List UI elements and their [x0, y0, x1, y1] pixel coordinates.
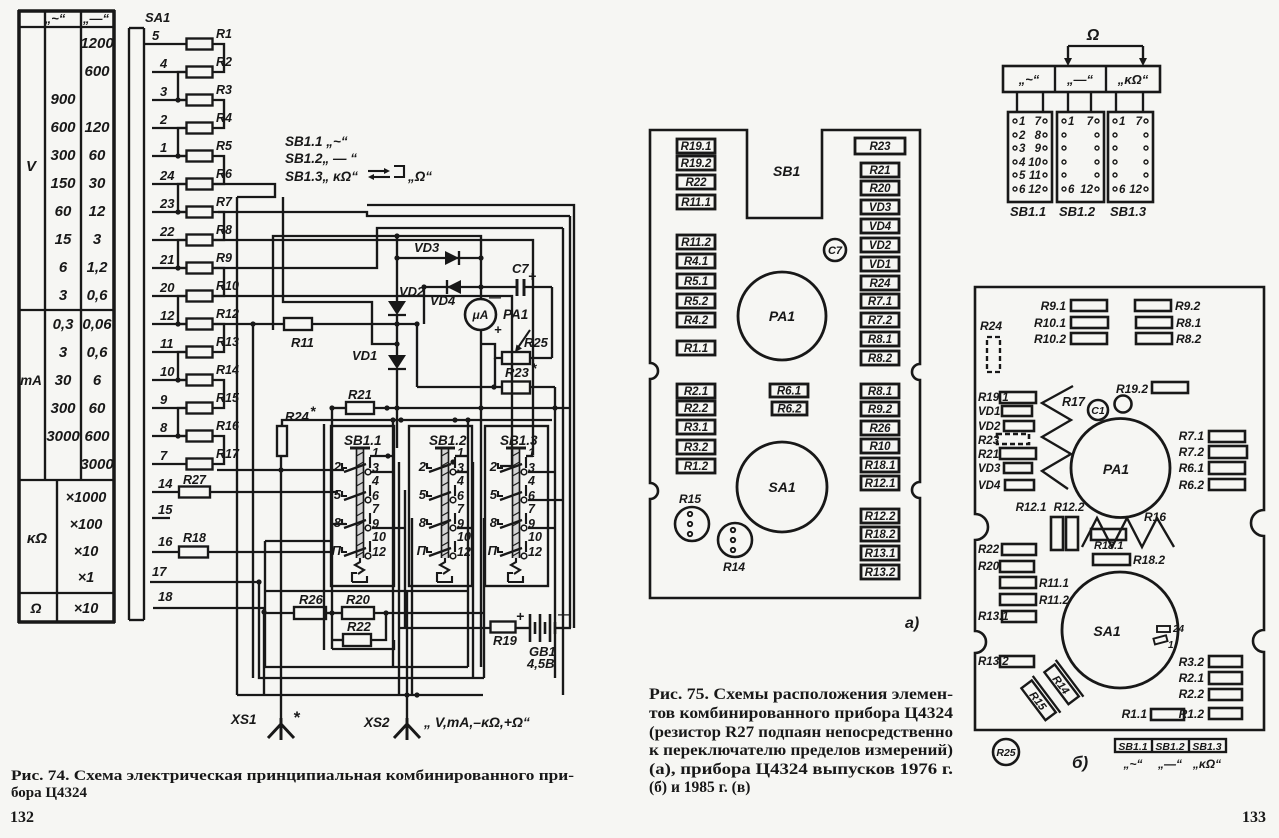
svg-text:R9.1: R9.1 [1041, 299, 1067, 313]
resistor R20 [326, 592, 484, 619]
svg-text:R23: R23 [505, 365, 530, 380]
svg-text:12: 12 [372, 545, 386, 559]
pinout block SB1.1 [1008, 112, 1052, 219]
svg-text:133: 133 [1242, 809, 1266, 826]
svg-text:4: 4 [371, 474, 379, 488]
svg-text:R15: R15 [679, 492, 701, 506]
PCB v pads R12.1 R12.2 [1016, 502, 1085, 550]
PCB a pad R3.2 [677, 440, 715, 454]
svg-text:R22: R22 [685, 177, 707, 189]
resistor R22 [329, 610, 386, 646]
svg-text:а): а) [905, 615, 919, 632]
PCB a pad VD1 right [861, 257, 899, 271]
svg-text:8: 8 [1035, 130, 1042, 142]
svg-text:Рис. 74. Схема электрическая п: Рис. 74. Схема электрическая принципиаль… [11, 768, 574, 784]
diode VD3 [394, 240, 483, 265]
svg-text:R8.1: R8.1 [868, 334, 892, 346]
svg-text:7: 7 [372, 502, 380, 516]
svg-text:4,5B: 4,5B [526, 656, 554, 671]
svg-text:XS2: XS2 [363, 715, 390, 730]
svg-text:R3.1: R3.1 [684, 422, 708, 434]
label a) [905, 615, 919, 632]
PCB a pad R11.2 [677, 235, 715, 249]
capacitor C7 [512, 261, 552, 358]
PCB a pad R8.1 right [861, 384, 899, 398]
svg-text:10: 10 [372, 530, 386, 544]
resistor R21 [329, 387, 570, 649]
svg-text:VD3: VD3 [869, 202, 892, 214]
svg-text:×1: ×1 [78, 570, 95, 586]
svg-text:„κΩ“: „κΩ“ [1192, 757, 1221, 771]
svg-text:3000: 3000 [46, 428, 80, 445]
wire row22 extension [213, 240, 534, 455]
PCB v pad R6.2 right [1179, 478, 1245, 492]
wire row24 extension [213, 184, 276, 197]
svg-text:PA1: PA1 [1103, 461, 1129, 477]
svg-text:SB1.3: SB1.3 [1110, 204, 1147, 219]
resistor R9 [152, 251, 232, 274]
svg-text:+: + [494, 322, 502, 337]
PCB v meter PA1 [1071, 419, 1170, 518]
svg-text:R6.2: R6.2 [777, 404, 802, 416]
resistor R12 [152, 307, 239, 330]
PCB board v outline [975, 287, 1264, 730]
svg-text:3000: 3000 [80, 456, 114, 473]
PCB v pad R13.1 lower-left [978, 611, 1036, 623]
svg-text:Рис. 75. Схемы расположения эл: Рис. 75. Схемы расположения элемен- [649, 686, 953, 703]
legend SB1 functions [285, 134, 432, 184]
terminal XS1 [230, 470, 301, 740]
PCB a pad R26 right [861, 421, 899, 435]
svg-text:VD1: VD1 [869, 259, 891, 271]
svg-text:VD2: VD2 [869, 240, 892, 252]
PCB v pad R1.1 [1122, 707, 1184, 721]
svg-text:R1.1: R1.1 [684, 343, 708, 355]
PCB a pad R20 right [861, 181, 899, 195]
svg-text:R24: R24 [285, 409, 310, 424]
PCB v pad R21 left [978, 448, 1036, 461]
PCB v resistor R15 tilted [1019, 676, 1061, 723]
svg-text:600: 600 [84, 428, 110, 445]
svg-text:C1: C1 [1091, 405, 1105, 417]
svg-text:R20: R20 [346, 592, 371, 607]
svg-text:R2.2: R2.2 [1179, 687, 1205, 701]
svg-text:×10: ×10 [74, 601, 99, 617]
svg-text:R20: R20 [978, 561, 1000, 573]
svg-text:SB1.1 „~“: SB1.1 „~“ [285, 134, 348, 149]
svg-text:R22: R22 [347, 619, 372, 634]
svg-text:R11: R11 [291, 335, 314, 350]
meter PA1 [465, 258, 528, 667]
svg-text:R6.1: R6.1 [777, 386, 801, 398]
PCB v pad R2.2 lower-right [1179, 687, 1242, 701]
PCB a capacitor C7 [824, 239, 846, 261]
PCB a pad R12.1 right [861, 476, 899, 490]
svg-text:R7.1: R7.1 [1179, 429, 1205, 443]
svg-text:R10.1: R10.1 [1034, 316, 1066, 330]
svg-text:1: 1 [1019, 116, 1025, 128]
svg-text:2: 2 [489, 459, 498, 474]
svg-text:SB1.2: SB1.2 [1059, 204, 1096, 219]
PCB v pad R9.1 [1041, 299, 1107, 313]
PCB a pad R24 right [861, 276, 899, 290]
PCB a pad R10 right [861, 439, 899, 453]
svg-text:1: 1 [1068, 116, 1074, 128]
PCB v pad R23 left [978, 434, 1029, 447]
PCB a pad R12.2 right [861, 509, 899, 523]
svg-text:C7: C7 [512, 261, 529, 276]
PCB a pad R19.1 [677, 139, 715, 153]
battery GB1 [516, 607, 571, 671]
resistor R13 [152, 335, 239, 358]
resistor R11 [213, 318, 420, 387]
svg-text:R21: R21 [348, 387, 372, 402]
PCB v pad R11.1 [1000, 577, 1069, 590]
terminal XS2 [363, 590, 530, 740]
PCB a pad R4.1 [677, 254, 715, 268]
svg-text:R25: R25 [996, 747, 1015, 759]
wire row23 extension to top rail [218, 212, 570, 628]
svg-text:5: 5 [490, 487, 498, 502]
svg-text:VD2: VD2 [978, 421, 1001, 433]
svg-text:C7: C7 [828, 245, 843, 257]
svg-text:12: 12 [89, 203, 106, 220]
svg-text:9: 9 [160, 392, 168, 407]
resistor R18 [152, 524, 346, 558]
PCB a pad R22 [677, 175, 715, 189]
svg-text:*: * [310, 403, 316, 419]
svg-text:900: 900 [50, 91, 76, 108]
svg-text:6: 6 [1019, 184, 1026, 196]
node 17 wire [150, 564, 262, 585]
svg-text:6: 6 [1119, 184, 1126, 196]
svg-text:22: 22 [159, 224, 175, 239]
svg-text:11: 11 [160, 336, 174, 351]
svg-text:R24: R24 [980, 319, 1002, 333]
PCB a pad R18.1 right [861, 458, 899, 472]
resistor R2 [152, 55, 232, 78]
svg-text:1: 1 [372, 446, 379, 460]
svg-text:R18: R18 [183, 531, 206, 545]
svg-text:б): б) [1072, 753, 1089, 772]
svg-text:R7.2: R7.2 [1179, 445, 1205, 459]
svg-text:„κΩ“: „κΩ“ [1117, 72, 1149, 87]
svg-text:П: П [417, 543, 427, 558]
svg-text:„—“: „—“ [1066, 72, 1094, 87]
svg-text:+: + [528, 268, 536, 284]
svg-text:κΩ: κΩ [27, 530, 47, 547]
svg-text:23: 23 [159, 196, 175, 211]
PCB v switch boxes SB1.1 SB1.2 SB1.3 [1115, 739, 1226, 771]
PCB v pad VD3 left [978, 463, 1032, 475]
svg-text:Ω: Ω [30, 600, 42, 616]
resistor R1 [144, 27, 232, 50]
svg-text:R19.2: R19.2 [1116, 382, 1148, 396]
PCB v pad R13.2 lower-left [978, 656, 1034, 668]
svg-text:R3.2: R3.2 [1179, 655, 1205, 669]
svg-text:R12.1: R12.1 [1016, 502, 1047, 514]
svg-text:VD2: VD2 [399, 284, 425, 299]
svg-text:VD4: VD4 [430, 293, 456, 308]
svg-text:VD3: VD3 [414, 240, 440, 255]
PCB a switch SA1 [737, 442, 827, 532]
svg-text:R1.2: R1.2 [684, 461, 709, 473]
svg-text:VD4: VD4 [978, 480, 1001, 492]
PCB v pad R7.1 right [1179, 429, 1245, 443]
svg-text:R18.2: R18.2 [865, 529, 896, 541]
svg-text:30: 30 [55, 372, 72, 389]
resistor R17 [152, 447, 240, 470]
svg-text:П: П [332, 543, 342, 558]
svg-text:R1.1: R1.1 [1122, 707, 1148, 721]
svg-text:„ V,тA,–κΩ,+Ω“: „ V,тA,–κΩ,+Ω“ [423, 714, 530, 730]
PCB v pad VD1 left [978, 406, 1032, 418]
PCB a pad R2.2 [677, 401, 715, 415]
svg-text:R6.1: R6.1 [1179, 461, 1205, 475]
svg-text:60: 60 [89, 147, 106, 164]
svg-text:R8.1: R8.1 [1176, 316, 1202, 330]
diode VD4 [421, 280, 517, 324]
wire bundle between SB1.2 and SB1.3 [450, 417, 484, 678]
svg-text:600: 600 [50, 119, 76, 136]
svg-text:VD3: VD3 [978, 463, 1001, 475]
svg-text:R3: R3 [216, 83, 232, 97]
svg-text:1: 1 [160, 140, 167, 155]
PCB a pad VD2 right [861, 238, 899, 252]
PCB v hole [1115, 396, 1132, 413]
pinout block SB1.2 [1057, 112, 1104, 219]
PCB v resistor R17 zigzag [1042, 386, 1086, 489]
PCB a meter PA1 [738, 272, 826, 360]
svg-text:П: П [488, 543, 498, 558]
diode VD1 [352, 348, 406, 448]
wire row7 extension [217, 467, 344, 472]
PCB a pad R23 right [855, 138, 905, 154]
wire bundle between SB1.1 and SB1.2 [370, 417, 412, 695]
svg-text:*: * [531, 360, 537, 376]
PCB a resistor R14 [718, 523, 752, 574]
svg-text:11: 11 [1029, 170, 1041, 182]
svg-text:R2.1: R2.1 [684, 386, 708, 398]
svg-text:8: 8 [334, 515, 342, 530]
PCB v pad VD2 left [978, 421, 1034, 433]
svg-text:μA: μA [472, 308, 489, 322]
svg-text:R10: R10 [216, 279, 239, 293]
potentiometer R25 [481, 330, 552, 364]
PCB a pad R2.1 [677, 384, 715, 398]
label v) [1072, 753, 1089, 772]
svg-text:R4.1: R4.1 [684, 256, 708, 268]
PCB a resistor R15 [675, 492, 709, 541]
svg-text:R11.2: R11.2 [681, 237, 711, 249]
PCB a pad R1.2 [677, 459, 715, 473]
svg-text:4: 4 [527, 474, 535, 488]
svg-text:7: 7 [1136, 116, 1143, 128]
svg-text:R7.1: R7.1 [868, 296, 892, 308]
PCB a pad R11.1 [677, 195, 715, 209]
resistor R3 [152, 83, 232, 106]
svg-text:SA1: SA1 [768, 479, 795, 495]
svg-text:R14: R14 [216, 363, 239, 377]
resistor R7 [152, 195, 233, 218]
PCB v pad R24 [980, 319, 1002, 372]
svg-text:mA: mA [20, 373, 42, 388]
svg-text:8: 8 [490, 515, 498, 530]
PCB v pad R8.2 [1136, 332, 1202, 346]
svg-text:1: 1 [457, 446, 464, 460]
svg-text:—: — [488, 290, 502, 304]
PCB a pad R4.2 [677, 313, 715, 327]
svg-text:R19.2: R19.2 [681, 158, 712, 170]
resistor R4 [152, 111, 232, 134]
svg-text:R17: R17 [1062, 395, 1086, 409]
svg-text:0,6: 0,6 [87, 344, 109, 361]
svg-text:9: 9 [1035, 143, 1042, 155]
svg-text:60: 60 [89, 400, 106, 417]
svg-text:+: + [516, 608, 524, 624]
svg-text:R13.1: R13.1 [865, 548, 896, 560]
PCB v pad R7.2 right [1179, 445, 1247, 459]
PCB v pad R19.2 [1116, 382, 1188, 396]
svg-text:14: 14 [158, 476, 173, 491]
resistor R27 [152, 473, 338, 498]
PCB v pad R18.1 [1091, 529, 1126, 552]
svg-text:24: 24 [1172, 624, 1185, 635]
switch SA1 bus [129, 10, 170, 620]
svg-text:R19.1: R19.1 [681, 141, 712, 153]
svg-text:SB1.1: SB1.1 [1010, 204, 1046, 219]
svg-text:0,3: 0,3 [53, 316, 75, 333]
switch SB1.1 [331, 426, 394, 586]
svg-text:R9: R9 [216, 251, 232, 265]
svg-text:VD4: VD4 [869, 221, 892, 233]
svg-text:R12: R12 [216, 307, 239, 321]
svg-text:R1: R1 [216, 27, 232, 41]
wire third top rail [367, 205, 574, 628]
PCB a pad R13.2 right [861, 565, 899, 579]
svg-text:12: 12 [1080, 184, 1093, 196]
node 18 wire [153, 589, 267, 695]
svg-text:„~“: „~“ [1122, 757, 1142, 771]
PCB a pad R5.2 [677, 294, 715, 308]
PCB v resistor R16 zigzag [1082, 510, 1174, 547]
wire row20 extension [213, 296, 513, 466]
svg-text:R10: R10 [869, 441, 891, 453]
svg-text:1200: 1200 [80, 35, 114, 52]
resistor R19 [400, 622, 531, 649]
svg-text:R7: R7 [216, 195, 233, 209]
svg-text:R19: R19 [493, 633, 518, 648]
PCB a pad R3.1 [677, 420, 715, 434]
svg-text:1: 1 [1168, 640, 1174, 651]
svg-text:R13.2: R13.2 [865, 567, 896, 579]
wire outer box left [236, 197, 238, 695]
svg-text:VD1: VD1 [352, 348, 377, 363]
svg-text:PA1: PA1 [769, 308, 795, 324]
svg-text:R26: R26 [869, 423, 891, 435]
svg-text:SB1.1: SB1.1 [1118, 741, 1147, 753]
svg-text:3: 3 [160, 84, 168, 99]
svg-text:R9.2: R9.2 [1175, 299, 1201, 313]
PCB v pad R9.2 [1135, 299, 1201, 313]
svg-text:8: 8 [160, 420, 168, 435]
PCB a pad R7.1 right [861, 294, 899, 308]
svg-text:R6.2: R6.2 [1179, 478, 1205, 492]
svg-text:R8.2: R8.2 [868, 353, 893, 365]
PCB a pad R18.2 right [861, 527, 899, 541]
svg-text:7: 7 [160, 448, 168, 463]
svg-text:R12.2: R12.2 [865, 511, 896, 523]
PCB v resistor R25 [993, 739, 1019, 765]
svg-text:7: 7 [1087, 116, 1094, 128]
svg-text:16: 16 [158, 534, 173, 549]
PCB a pad R13.1 right [861, 546, 899, 560]
PCB a pad R9.2 right [861, 402, 899, 416]
svg-text:R14: R14 [723, 560, 745, 574]
PCB v pad R1.2 lower-right [1179, 707, 1242, 721]
svg-text:5: 5 [419, 487, 427, 502]
wire bottom rails [237, 541, 484, 698]
PCB v resistor R14 tilted [1042, 660, 1084, 707]
PCB v pad R10.1 [1034, 316, 1108, 330]
svg-text:XS1: XS1 [230, 712, 257, 727]
svg-text:R25: R25 [524, 335, 549, 350]
svg-text:12: 12 [1028, 184, 1041, 196]
PCB v pad R6.1 right [1179, 461, 1245, 475]
svg-text:7: 7 [1035, 116, 1042, 128]
svg-text:R5.1: R5.1 [684, 276, 708, 288]
svg-text:R13: R13 [216, 335, 239, 349]
svg-text:120: 120 [84, 119, 110, 136]
svg-text:R7.2: R7.2 [868, 315, 893, 327]
svg-text:6: 6 [1068, 184, 1075, 196]
svg-text:R22: R22 [978, 544, 1000, 556]
svg-text:„—“: „—“ [82, 11, 110, 26]
wire row21 extension to second rail [213, 228, 564, 695]
svg-text:1: 1 [1119, 116, 1125, 128]
svg-text:17: 17 [152, 564, 167, 579]
PCB v pad R11.2 [1000, 594, 1069, 607]
caption figure 75 [649, 686, 953, 796]
PCB v pad R2.1 lower-right [1179, 671, 1242, 685]
svg-text:6: 6 [59, 259, 68, 276]
svg-text:15: 15 [55, 231, 72, 248]
svg-text:(резистор R27 подпаян непосред: (резистор R27 подпаян непосредственно [649, 724, 953, 741]
svg-text:„~“: „~“ [1018, 72, 1040, 87]
svg-text:SA1: SA1 [145, 10, 170, 25]
svg-text:7: 7 [528, 502, 536, 516]
svg-text:R5.2: R5.2 [684, 296, 709, 308]
PCB a pad R6.1 [770, 384, 808, 398]
caption figure 74 [11, 768, 574, 801]
resistor R8 [152, 223, 232, 246]
svg-text:300: 300 [50, 400, 76, 417]
wire left inner box [250, 197, 399, 678]
svg-text:300: 300 [50, 147, 76, 164]
wire upper cross rail [273, 233, 481, 330]
resistor R15 [152, 391, 240, 414]
PCB a pad VD3 right [861, 200, 899, 214]
svg-text:2: 2 [333, 459, 342, 474]
resistor R6 [152, 167, 233, 190]
PCB v switch SA1 [1062, 572, 1185, 688]
PCB a pad VD4 right [861, 219, 899, 233]
svg-text:бора Ц4324: бора Ц4324 [11, 785, 88, 801]
resistor R23* [417, 358, 555, 678]
PCB a pad R7.2 right [861, 313, 899, 327]
svg-text:R11.1: R11.1 [1039, 578, 1069, 590]
svg-text:R21: R21 [869, 165, 890, 177]
